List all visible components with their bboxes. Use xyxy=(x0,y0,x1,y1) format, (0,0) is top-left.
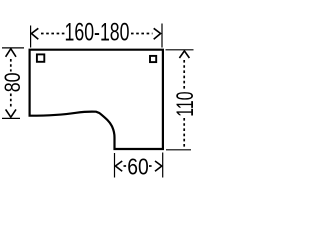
desk top outline xyxy=(30,50,163,149)
dim 60 extension line right xyxy=(162,153,164,178)
dim 160-180 extension line right xyxy=(161,24,163,48)
svg-text:80: 80 xyxy=(0,73,25,93)
svg-text:110: 110 xyxy=(173,92,199,117)
dim 160-180 dashed line left part xyxy=(41,33,65,35)
dim 60 arrow right xyxy=(155,161,162,171)
grommet hole right xyxy=(150,56,156,62)
dim 110 dashed line upper part xyxy=(183,60,185,91)
dim 160-180 extension line left xyxy=(30,26,32,48)
dim 160-180 arrow right xyxy=(154,28,161,39)
dim 80 dashed line lower part xyxy=(10,94,12,108)
dim 60 arrow left xyxy=(115,161,122,171)
dim 80 extension line bottom xyxy=(2,117,20,119)
dim 80 arrow up xyxy=(6,49,16,57)
dim 110 extension line bottom xyxy=(166,149,191,151)
dim 160-180 arrow left xyxy=(31,28,38,39)
dim 80 arrow down xyxy=(6,109,16,117)
dim 160-180 dashed line right part xyxy=(131,33,153,35)
dim 60 dashed line right part xyxy=(149,165,154,167)
dim 60 extension line left xyxy=(114,153,116,178)
dim 110 dashed line lower part xyxy=(183,118,185,149)
dim 80 extension line top xyxy=(2,47,24,49)
svg-text:160-180: 160-180 xyxy=(65,19,130,47)
dim 110 extension line top xyxy=(166,49,194,51)
dim 110 arrow up xyxy=(179,51,189,58)
svg-text:60: 60 xyxy=(127,153,149,179)
dim 80 dashed line upper part xyxy=(10,59,12,72)
dim 60 dashed line left part xyxy=(124,165,128,167)
grommet hole left xyxy=(37,54,44,61)
